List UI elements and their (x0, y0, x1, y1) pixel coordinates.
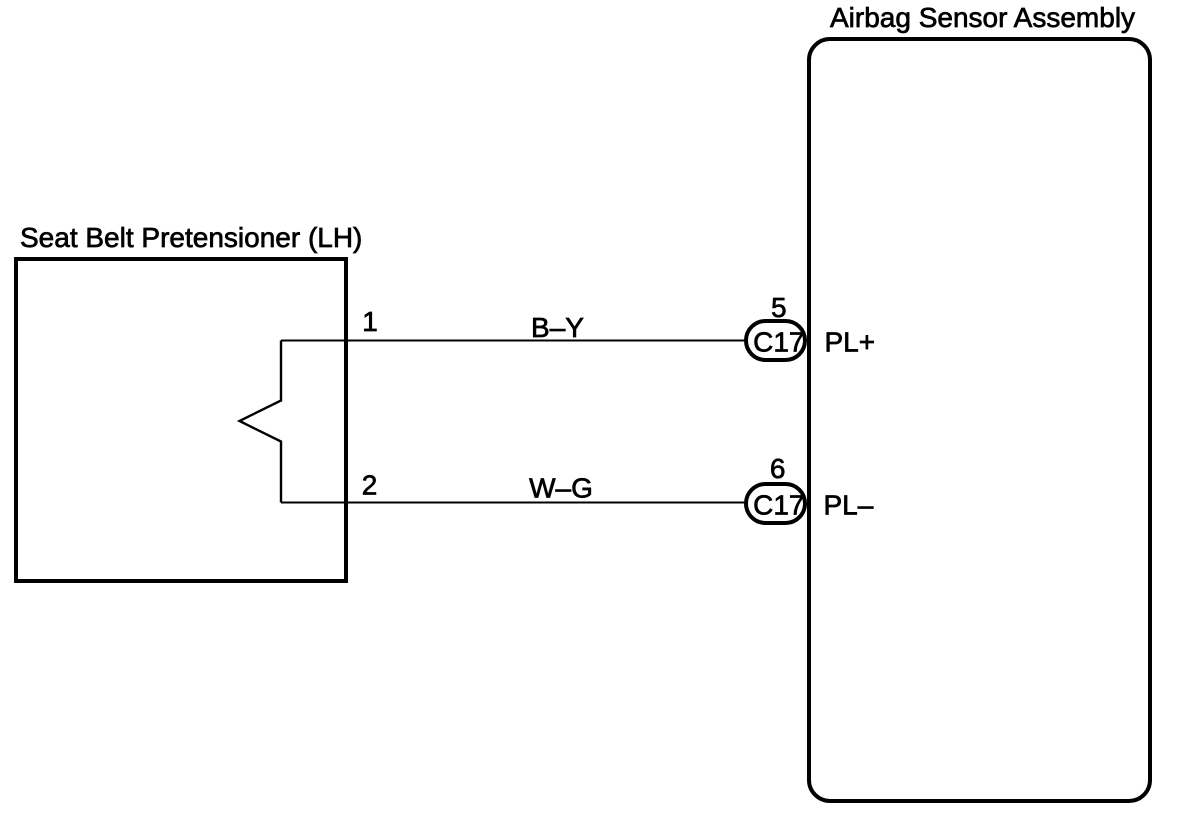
svg-text:2: 2 (362, 470, 378, 501)
svg-text:W–G: W–G (529, 473, 593, 504)
svg-text:6: 6 (770, 453, 786, 484)
svg-text:B–Y: B–Y (531, 312, 584, 343)
svg-text:Airbag Sensor Assembly: Airbag Sensor Assembly (830, 2, 1135, 33)
svg-text:Seat Belt Pretensioner (LH): Seat Belt Pretensioner (LH) (20, 222, 362, 253)
svg-text:C17: C17 (753, 327, 804, 358)
svg-text:PL+: PL+ (825, 327, 876, 358)
svg-text:5: 5 (771, 292, 787, 323)
svg-text:C17: C17 (753, 490, 804, 521)
svg-text:1: 1 (362, 306, 378, 337)
svg-text:PL–: PL– (824, 490, 874, 521)
